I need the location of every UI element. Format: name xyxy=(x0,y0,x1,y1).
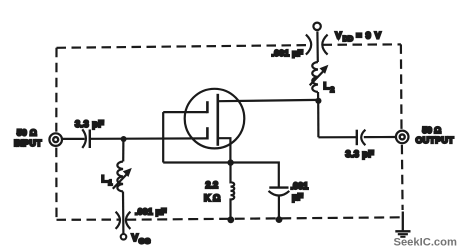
inductor L2 variable coil xyxy=(312,62,318,92)
transistor Q1 channel bar xyxy=(217,94,220,146)
capacitor C2 .001 uF feedthrough left arc xyxy=(116,212,120,229)
wire drain node down to output xyxy=(317,101,319,138)
capacitor C1 3.3 pF straight plate xyxy=(89,130,91,149)
inductor L2 adjust arrow xyxy=(310,65,329,86)
label VGG xyxy=(132,233,151,245)
svg-text:L: L xyxy=(102,174,108,184)
capacitor C2 .001 uF feedthrough right arc xyxy=(126,212,131,229)
wire Q1 source lead xyxy=(218,138,231,162)
svg-text:L: L xyxy=(324,81,330,91)
wire to C5 xyxy=(318,136,356,138)
svg-text:50 Ω: 50 Ω xyxy=(17,128,37,138)
svg-text:= 9 V: = 9 V xyxy=(356,30,382,40)
capacitor C4 .001 uF feedthrough right arc xyxy=(322,35,327,55)
wire Q1 drain to L2 node xyxy=(218,100,318,101)
label L1 xyxy=(102,174,113,187)
label 3.3 pF input xyxy=(75,119,104,129)
ground bars xyxy=(395,231,410,237)
shield enclosure dashed box right side upper xyxy=(400,44,403,129)
svg-text:OUTPUT: OUTPUT xyxy=(416,135,455,145)
inductor L1 variable coil xyxy=(117,162,123,192)
svg-text:50 Ω: 50 Ω xyxy=(422,125,441,135)
label 3.3 pF output xyxy=(346,149,375,159)
wire C3 to shield xyxy=(278,196,280,220)
inductor L1 adjust arrow xyxy=(113,168,132,189)
label L2 xyxy=(324,81,335,94)
label VDD = 9 V xyxy=(335,30,381,43)
capacitor C3 .001 uF curved bottom plate xyxy=(269,191,290,196)
label 50 ohm OUTPUT xyxy=(416,125,455,145)
wire source node to bypass capacitor corner xyxy=(231,163,279,188)
wire input connector to C1 xyxy=(63,138,85,140)
shield enclosure dashed box bottom-mid segment xyxy=(126,217,403,219)
capacitor C5 3.3 pF curved plate xyxy=(361,130,365,146)
svg-text:DD: DD xyxy=(343,34,353,43)
wire drain node up to L2 xyxy=(317,92,319,101)
svg-text:3.3 pF: 3.3 pF xyxy=(75,119,104,129)
wire junction down to L1 xyxy=(122,139,124,162)
svg-text:3.3 pF: 3.3 pF xyxy=(346,149,375,159)
capacitor C1 3.3 pF curved plate xyxy=(82,129,86,148)
svg-text:.001: .001 xyxy=(291,181,309,191)
wire C1 to gate G1 of Q1 xyxy=(90,137,208,140)
shield enclosure dashed box left side lower xyxy=(55,148,57,220)
connector J1 50-ohm INPUT xyxy=(49,133,62,146)
wire C5 to output connector xyxy=(364,136,396,138)
capacitor C4 .001 uF feedthrough left arc xyxy=(306,35,311,55)
node resistor to shield xyxy=(227,216,234,223)
svg-text:.001 μF: .001 μF xyxy=(135,206,167,216)
wire gate-2 loop to source node xyxy=(163,161,230,163)
label 50 ohm INPUT xyxy=(14,128,42,148)
shield enclosure dashed box top-left segment xyxy=(57,45,312,48)
svg-text:μF: μF xyxy=(292,192,304,202)
transistor Q1 dual-gate MOSFET body circle xyxy=(185,89,245,149)
capacitor C5 3.3 pF straight plate xyxy=(356,130,358,146)
connector J2 50-ohm OUTPUT xyxy=(396,131,409,144)
wire gate-2 loop vertical segment xyxy=(162,112,164,162)
svg-text:K Ω: K Ω xyxy=(204,193,220,203)
shield enclosure dashed box left side upper xyxy=(55,48,57,132)
wire L2 to VDD terminal xyxy=(316,31,319,62)
terminal VDD open circle xyxy=(313,23,320,30)
shield enclosure dashed box top-right segment xyxy=(323,43,401,46)
ground stem xyxy=(402,212,404,232)
label .001 uF at VDD xyxy=(272,48,304,58)
node C3 to shield xyxy=(276,216,283,223)
svg-text:.001 μF: .001 μF xyxy=(272,48,304,58)
wire L1 to VGG terminal xyxy=(122,192,125,234)
shield enclosure dashed box right side lower xyxy=(401,145,404,210)
transistor Q1 gate-1 electrode bar xyxy=(206,127,209,139)
resistor R1 2.2 K body xyxy=(231,163,235,221)
node drain junction xyxy=(315,98,321,104)
svg-text:GG: GG xyxy=(139,237,151,246)
label .001 uF at VGG xyxy=(135,206,167,216)
svg-text:2: 2 xyxy=(330,85,334,94)
svg-text:V: V xyxy=(132,233,139,244)
terminal VGG open circle xyxy=(121,234,127,240)
svg-text:2.2: 2.2 xyxy=(206,180,219,190)
label .001 uF bypass xyxy=(291,181,309,202)
node source junction xyxy=(227,159,233,165)
svg-text:SeekIC.com: SeekIC.com xyxy=(394,236,457,248)
capacitor C3 .001 uF top plate xyxy=(269,186,288,188)
shield enclosure dashed box bottom-left segment xyxy=(57,219,121,221)
label 2.2 K-ohm xyxy=(204,180,220,203)
svg-text:V: V xyxy=(335,30,342,41)
node junction input/L1 xyxy=(121,136,127,142)
transistor Q1 gate-2 electrode bar xyxy=(206,101,209,113)
svg-text:1: 1 xyxy=(108,178,112,187)
wire gate-2 to source loop left segment xyxy=(163,111,207,113)
svg-text:INPUT: INPUT xyxy=(14,138,42,148)
watermark SeekIC.com xyxy=(394,236,457,248)
